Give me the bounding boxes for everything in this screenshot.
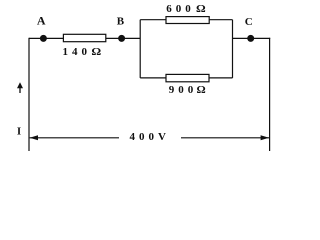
svg-text:400V: 400V	[130, 131, 170, 143]
svg-text:900: 900	[169, 84, 198, 96]
resistor R1 body	[63, 34, 105, 41]
wire: right vertical lead	[269, 38, 271, 151]
wire: left vertical lead	[28, 38, 30, 151]
svg-text:600: 600	[166, 3, 195, 15]
wire: top main right segment through C	[233, 37, 271, 39]
svg-text:Ω: Ω	[196, 3, 206, 15]
svg-text:Ω: Ω	[91, 46, 101, 58]
svg-text:140: 140	[63, 46, 92, 58]
wire: parallel block right vertical	[232, 20, 234, 78]
voltage dimension line right shaft with arrowhead	[181, 135, 269, 140]
wire: top main left segment A side	[29, 37, 63, 39]
svg-text:C: C	[245, 16, 253, 28]
resistor R3 body	[166, 74, 209, 81]
wire: parallel block left vertical	[139, 20, 141, 78]
wire: bottom branch right segment	[209, 77, 233, 79]
node B junction dot	[118, 35, 125, 42]
node A junction dot	[40, 35, 47, 42]
wire: top main middle segment through B	[106, 37, 140, 39]
resistor R2 body	[166, 17, 209, 24]
svg-text:B: B	[117, 16, 125, 28]
svg-text:Ω: Ω	[197, 84, 206, 96]
node C junction dot	[247, 35, 254, 42]
wire: bottom branch left segment	[140, 77, 166, 79]
svg-text:A: A	[37, 14, 46, 28]
wire: top branch left segment	[140, 19, 166, 21]
current direction arrow up	[17, 82, 23, 93]
voltage dimension line left shaft with arrowhead	[30, 135, 119, 140]
wire: top branch right segment	[209, 19, 233, 21]
svg-text:I: I	[17, 125, 21, 137]
